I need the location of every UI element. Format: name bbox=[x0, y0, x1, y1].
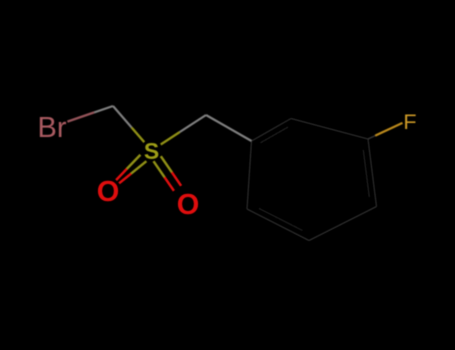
S=O1 double bond line a olive bbox=[127, 155, 141, 169]
S=O1 double bond line b red bbox=[119, 174, 131, 184]
bond Br-C1 carbon half bbox=[94, 106, 113, 112]
S=O2 double bond line a red bbox=[165, 177, 174, 191]
bond C2-ring bbox=[206, 115, 252, 141]
bond S-C2 carbon half bbox=[180, 115, 206, 132]
benzene ring edge A-B bbox=[252, 119, 292, 142]
S=O2 double bond line b olive bbox=[161, 156, 172, 172]
aromatic inner line E-F bbox=[259, 208, 302, 230]
bond C3-F fluorine half bbox=[375, 123, 402, 136]
S=O1 double bond line a red bbox=[116, 169, 127, 180]
aromatic inner line C-D bbox=[363, 150, 369, 197]
benzene ring edge B-C bbox=[291, 119, 368, 140]
svg-text:F: F bbox=[403, 110, 416, 134]
bond S-C2 sulfur half bbox=[161, 132, 180, 145]
benzene ring edge D-E bbox=[309, 207, 377, 241]
benzene ring edge C-D bbox=[368, 139, 377, 207]
svg-text:S: S bbox=[144, 138, 159, 164]
bond C1-S sulfur half bbox=[132, 127, 145, 142]
S=O2 double bond line a olive bbox=[154, 161, 165, 177]
svg-text:O: O bbox=[177, 189, 200, 221]
bond C3-F carbon half bbox=[368, 136, 375, 139]
svg-text:O: O bbox=[97, 176, 120, 208]
bond C1-S carbon half bbox=[113, 106, 132, 127]
benzene ring edge F-A bbox=[247, 141, 252, 209]
S=O1 double bond line b olive bbox=[131, 161, 146, 173]
bond Br-C1 bromine half bbox=[67, 112, 94, 121]
aromatic inner line A-B bbox=[260, 127, 288, 143]
S=O2 double bond line b red bbox=[172, 172, 181, 186]
benzene ring edge E-F bbox=[247, 209, 309, 241]
svg-text:Br: Br bbox=[38, 112, 67, 144]
